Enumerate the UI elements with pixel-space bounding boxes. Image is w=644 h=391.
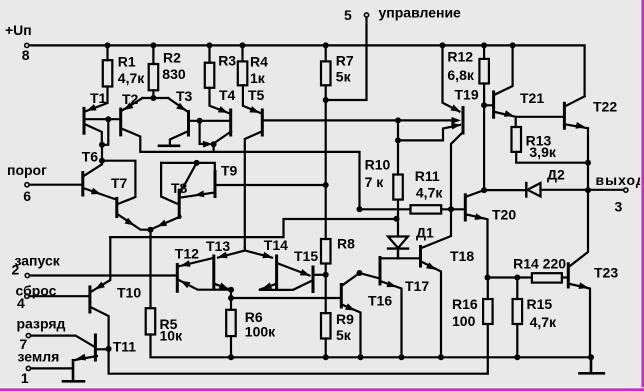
wire: R14 node wire to T23 base: [488, 276, 568, 278]
svg-text:100к: 100к: [245, 324, 276, 340]
svg-text:R4: R4: [250, 54, 268, 70]
transistor T1 base bar: [83, 108, 86, 133]
wire: T20 emitter down to R14/R16 node: [467, 215, 488, 278]
wire: T5 base long wire to T19 second emitter: [264, 119, 453, 121]
wire: T3 collector to ground stem: [170, 132, 188, 145]
ground stem and bar under T23: [580, 357, 604, 373]
diode D1: [388, 237, 408, 249]
svg-text:T11: T11: [113, 339, 137, 355]
svg-text:+Uп: +Uп: [5, 22, 32, 38]
T6 emitter arrow: [91, 188, 101, 195]
junction dot R8/R9 node: [323, 272, 329, 278]
wire: T1 collector diagonal: [85, 124, 102, 145]
T9 emitter arrow: [195, 191, 205, 198]
junction dot T1 base node: [105, 116, 111, 122]
wire: T13/T14 common feed from T5 collector: [218, 247, 272, 257]
resistor R13: [512, 127, 522, 152]
transistor T15 base bar: [312, 267, 315, 292]
svg-text:R8: R8: [337, 236, 355, 252]
wire: trigger pin2 wire to T12 base: [30, 274, 176, 276]
resistor R12: [479, 59, 489, 84]
T18 emitter arrow: [426, 262, 436, 270]
svg-text:T23: T23: [594, 265, 618, 281]
T8 emitter arrow: [157, 220, 167, 227]
wire: T8 base loop from collector wire: [161, 163, 177, 204]
T14 bottom arrow: [262, 282, 272, 288]
wire: T21 collector to rail: [495, 45, 513, 94]
svg-text:T9: T9: [221, 163, 238, 179]
junction dots above R6: [228, 287, 234, 293]
wire: threshold input to T6 base: [29, 184, 82, 186]
svg-text:R9: R9: [336, 311, 354, 327]
wire: node T3T4-base tap down to T4 collector node: [200, 121, 205, 144]
wire: T7/T8 tail current wire to T10 and over up to D1 node: [110, 219, 396, 237]
svg-text:T19: T19: [455, 87, 479, 103]
svg-text:R15: R15: [527, 296, 553, 312]
svg-text:10к: 10к: [160, 328, 184, 344]
svg-text:T3: T3: [176, 88, 193, 104]
svg-text:T10: T10: [117, 285, 141, 301]
svg-text:T21: T21: [520, 90, 544, 106]
wire: R11 left lead from node: [360, 208, 411, 210]
resistor R4: [238, 61, 248, 85]
svg-text:T6: T6: [82, 149, 99, 165]
transistor T22 base bar: [563, 103, 566, 128]
wire: tail node down through rail to R5 top: [149, 230, 151, 309]
wire: T1 base to T2 base with tap down to T1 collector node: [84, 119, 120, 145]
T19 first emitter arrow: [451, 105, 461, 112]
svg-text:1: 1: [21, 370, 29, 386]
T19 third emitter arrow: [451, 123, 461, 130]
transistor T12 base bar: [176, 265, 179, 292]
svg-text:6: 6: [23, 188, 31, 204]
svg-text:R2: R2: [163, 50, 181, 66]
resistor R10: [393, 175, 403, 200]
wire: R8 bottom to R8/R9 node and on to R9 top: [325, 264, 327, 314]
wire: T18 emitter to rail: [422, 262, 441, 357]
resistor R1: [103, 60, 113, 86]
T23 emitter arrow: [579, 282, 589, 289]
ground bar under T3: [159, 145, 179, 148]
svg-text:1к: 1к: [250, 70, 266, 86]
svg-text:R1: R1: [118, 54, 136, 70]
svg-text:T22: T22: [593, 99, 617, 115]
transistor T4 base bar: [229, 110, 232, 135]
wire: T17 emitter to rail: [382, 282, 402, 358]
wire: D2 anode to output terminal pin3: [541, 189, 624, 191]
wire: R7 top lead from rail: [325, 45, 327, 61]
svg-text:T20: T20: [492, 207, 516, 223]
svg-text:4,7к: 4,7к: [416, 185, 443, 201]
wire: T12 upper link to T13 bar: [179, 258, 212, 266]
wire: reset pin4 wire to T10 base: [29, 295, 88, 297]
terminal pin8 +Up: [25, 43, 29, 47]
T11 emitter arrow: [76, 354, 86, 361]
svg-text:4,7к: 4,7к: [118, 70, 145, 86]
wire: T8 collector diagonal up to node: [180, 163, 197, 194]
terminal pin6 threshold: [25, 183, 29, 187]
resistor R11 horizontal: [411, 205, 442, 213]
transistor T11 base bar: [94, 335, 97, 360]
junction dot tail node: [148, 227, 154, 233]
svg-text:T12: T12: [175, 246, 199, 262]
junction dot D1 top node: [394, 216, 400, 222]
svg-text:R16: R16: [452, 296, 478, 312]
junction dot R13 bottom node: [585, 160, 591, 166]
transistor T5 base bar: [261, 110, 264, 135]
wire: output node down to T23 collector: [570, 190, 588, 266]
transistor T18 base bar: [419, 247, 422, 267]
T2 emitter arrow: [124, 102, 134, 110]
wire: R12 bottom down to output wire node with T21 base tap: [484, 84, 492, 191]
wire: T21 emitter to R13 and T22 base: [495, 112, 563, 127]
wire: T19 collector lead down to R11 node: [451, 132, 463, 209]
svg-text:R10: R10: [365, 157, 391, 173]
wire: T22 emitter down through R13 node to output node: [566, 125, 588, 191]
wire: R9 bottom to rail: [325, 339, 327, 358]
wire: gnd pin1 wire to ground stem: [30, 367, 73, 369]
svg-text:T14: T14: [264, 237, 288, 253]
wire: R3 bottom to T4 emitter diagonal: [210, 88, 229, 113]
junction dot T3/T4 base node: [197, 118, 203, 124]
svg-text:7 к: 7 к: [365, 174, 385, 190]
junction dots R14 node row: [485, 275, 491, 281]
ground stem and bar under T11: [63, 360, 84, 381]
wire: T19 first emitter from rail: [443, 45, 460, 111]
junction dot output node: [585, 187, 591, 193]
junction dots T1 collector chain: [99, 142, 105, 148]
svg-text:4,7к: 4,7к: [530, 314, 557, 330]
T4 collector arrow: [203, 141, 213, 148]
wire: T10 emitter down to T11 collector node: [91, 308, 108, 349]
junction dot T4 collector node: [211, 141, 217, 147]
resistor R8: [321, 239, 331, 264]
junction dot T9 base node: [323, 182, 329, 188]
svg-text:земля: земля: [18, 349, 60, 365]
terminal pin4 reset: [25, 294, 29, 298]
T12 upper arrow: [181, 260, 191, 267]
transistor T6 base bar: [81, 173, 84, 196]
svg-text:Д2: Д2: [547, 167, 565, 183]
junction dot R12 output node: [481, 187, 487, 193]
svg-text:T17: T17: [405, 278, 429, 294]
svg-text:T4: T4: [219, 87, 236, 103]
wire: T15 base to R8/R9 node: [315, 274, 326, 276]
wire: T2 emitter diagonal: [122, 98, 143, 111]
svg-text:T16: T16: [368, 293, 392, 309]
svg-text:запуск: запуск: [15, 253, 61, 269]
wire: T18 collector up to R11 node: [422, 209, 452, 248]
T14 top arrow: [262, 252, 272, 259]
transistor T10 base bar: [88, 287, 91, 312]
terminal pin2 trigger: [25, 273, 29, 277]
terminal pin1 ground: [26, 366, 30, 370]
T12 emitter arrow: [181, 281, 191, 289]
transistor T13 base bar: [212, 256, 215, 288]
wire: T9 emitter diagonal to T8 bar: [181, 193, 215, 198]
wire: R6 node to T16 base: [231, 297, 340, 299]
junction dot T11 collector node: [106, 346, 112, 352]
T4 emitter arrow: [218, 106, 228, 113]
wire: control pin5 lead down and over to R7 bottom node: [326, 17, 367, 100]
wire: T23 emitter to rail: [570, 284, 590, 357]
T16 emitter arrow: [345, 303, 355, 310]
wire: R15 top lead from node: [516, 278, 518, 300]
wire: T17 collector bus to T18 base with D1 tap: [380, 257, 419, 259]
wire: R2 top lead from rail: [152, 45, 154, 64]
junction dot T19 third emitter branch: [395, 137, 401, 143]
junction dot R2 base tie: [150, 95, 156, 101]
svg-text:разряд: разряд: [17, 316, 66, 332]
svg-text:R14 220: R14 220: [513, 256, 566, 272]
wire: R15 bottom to rail: [516, 324, 518, 357]
wire: T22 collector diagonal to rail drop: [566, 96, 585, 106]
svg-text:T18: T18: [450, 248, 474, 264]
wire: T16 collector diagonal to node: [343, 273, 360, 285]
resistor R5: [146, 308, 156, 334]
wire: T16 emitter to rail: [343, 305, 361, 357]
svg-text:Д1: Д1: [416, 225, 434, 241]
wire: +Up top supply rail pin8 to T22 collector drop: [29, 45, 585, 96]
wire: T3 emitter diagonal: [168, 98, 187, 111]
junction dot T16 collector node: [357, 270, 363, 276]
transistor T9 base bar: [214, 171, 217, 196]
transistor T19 base bar: [462, 108, 465, 133]
svg-text:R7: R7: [336, 53, 354, 69]
wire: T4 collector diagonal: [214, 132, 231, 144]
wire: T20 collector to output wire node: [467, 190, 485, 196]
wire: R4 top lead from rail: [241, 45, 243, 61]
wire: T11 emitter to ground stem: [73, 356, 97, 360]
wire: R16 bottom crossing rail down to gnd return line to T11 node: [109, 324, 488, 374]
wire: T8 emitter to tail node: [148, 217, 181, 230]
svg-text:T5: T5: [248, 87, 265, 103]
transistor T8 base bar: [178, 190, 181, 217]
resistor R6: [226, 310, 236, 336]
wire: T13 emitter to node above R6: [216, 284, 230, 289]
resistor R14 horizontal: [532, 273, 562, 282]
svg-text:T15: T15: [294, 248, 318, 264]
resistor R9: [321, 313, 331, 338]
transistor T14 base bar: [275, 256, 278, 288]
wire: R5 bottom corner into emitter ground rail: [151, 335, 592, 358]
svg-text:T2: T2: [122, 91, 139, 107]
resistor R3: [205, 63, 215, 88]
svg-text:830: 830: [162, 66, 186, 82]
wire: node to T17 base diagonal: [360, 273, 379, 278]
wire: T19 third emitter branch: [398, 125, 460, 140]
svg-text:управление: управление: [379, 5, 462, 21]
svg-text:3: 3: [615, 199, 623, 215]
T1 emitter arrow: [87, 104, 97, 111]
transistor T3 base bar: [187, 112, 190, 136]
wire: T11 collector stub to node: [97, 348, 109, 350]
svg-text:100: 100: [452, 313, 476, 329]
resistor R16: [483, 299, 493, 324]
wire: T6 emitter diagonal to T7 base: [85, 189, 115, 200]
wire: T9 base to divider node on R7/R8 line: [217, 184, 326, 186]
wire: R1 top lead from rail: [106, 45, 108, 60]
wire: T3 base to T4 base: [190, 120, 229, 122]
wire: discharge pin7 wire to T11 base: [30, 336, 94, 347]
svg-text:8: 8: [22, 47, 30, 63]
svg-text:T8: T8: [171, 180, 188, 196]
junction dots bottom rail: [228, 354, 234, 360]
junction dot R11 right node: [448, 206, 454, 212]
diode D2: [528, 183, 541, 197]
wire: T10 collector drop and diagonal: [92, 237, 111, 291]
junction dots top rail: [105, 42, 111, 48]
svg-text:6,8к: 6,8к: [447, 67, 474, 83]
T17 emitter arrow: [386, 281, 396, 287]
transistor T23 base bar: [567, 264, 570, 287]
svg-text:5: 5: [344, 7, 352, 23]
terminal pin5 control: [364, 13, 368, 17]
wire: T14 emitter to T15 emitter bus: [259, 281, 311, 290]
wire: T8/T9 collector wire: [161, 163, 215, 172]
transistor T17 base bar: [379, 258, 382, 285]
wire: R3 top lead from rail: [208, 45, 210, 62]
svg-text:R3: R3: [218, 53, 236, 69]
wire: R4 bottom to T5 emitter diagonal: [243, 85, 260, 113]
T5 emitter arrow: [249, 106, 259, 113]
T10 collector arrow: [95, 282, 105, 290]
terminal pin3 output: [624, 188, 628, 192]
wire: T6 collector diagonal up to node: [85, 161, 103, 176]
svg-text:R11: R11: [415, 168, 440, 184]
wire: T2 collector down to long rail and over to R11 node: [122, 129, 360, 210]
transistor T7 base bar: [115, 198, 118, 216]
wire: R1 bottom to T1 emitter diagonal: [86, 87, 108, 112]
T21 emitter arrow: [504, 110, 514, 117]
transistor T2 base bar: [119, 109, 122, 135]
wire: R10 top tap on long wire down to diode D1: [397, 120, 399, 236]
svg-text:R12: R12: [447, 48, 473, 64]
wire: R11 right lead to T20 base: [441, 208, 464, 210]
resistor R15: [513, 299, 523, 324]
wire: R2 bottom to T2/T3 emitter tie bar: [143, 90, 169, 98]
wire: T12 emitter to R6 node: [179, 280, 231, 290]
svg-text:T1: T1: [90, 90, 107, 106]
svg-text:порог: порог: [7, 162, 47, 178]
T7 emitter arrow: [125, 218, 135, 226]
wire: R12 top lead from rail: [483, 45, 485, 59]
resistor R7: [321, 61, 331, 85]
border frame: [640, 0, 641, 391]
transistor T20 base bar: [464, 195, 467, 220]
wire: output wire from R12 node to diode D2: [484, 189, 526, 191]
T13 top arrow: [218, 252, 228, 259]
T22 emitter arrow: [576, 122, 586, 129]
T20 emitter arrow: [475, 213, 485, 220]
wire: node T1-collector down to T6 collector node: [101, 145, 103, 161]
wire: T6 collector node over and down to T7 collector: [102, 161, 135, 204]
svg-text:T7: T7: [111, 175, 128, 191]
junction dot T8 collector node: [194, 160, 200, 166]
wire: T14 to T15 link arrow line: [278, 264, 310, 276]
wire: T5 collector long vertical down to T13/T14 node: [245, 132, 262, 248]
svg-text:4: 4: [17, 295, 25, 311]
T19 second emitter arrow: [452, 117, 462, 124]
resistor R2: [149, 64, 159, 90]
T15 arrow: [300, 269, 310, 276]
svg-text:T13: T13: [206, 238, 230, 254]
junction dot R10 top on long wire: [395, 117, 401, 123]
svg-text:2: 2: [12, 262, 20, 278]
wire: node above R6 to R6 top: [230, 290, 232, 310]
junction dot control/R7 node: [323, 97, 329, 103]
svg-text:выход: выход: [596, 172, 644, 188]
junction dot R11 left node: [357, 206, 363, 212]
svg-text:5к: 5к: [336, 69, 352, 85]
wire: T4 collector node down to long rail: [213, 144, 215, 151]
wire: R16 top lead from node: [487, 278, 489, 300]
T13 bottom arrow: [219, 283, 229, 290]
svg-text:3,9к: 3,9к: [529, 144, 556, 160]
wire: R13 bottom over to T22 emitter line: [516, 152, 588, 163]
wire: T7 emitter to tail node: [118, 215, 148, 230]
wire: R6 bottom to rail: [230, 336, 232, 357]
svg-text:5к: 5к: [336, 327, 352, 343]
transistor T21 base bar: [492, 92, 495, 117]
wire: R7 bottom long divider line down to R8 top: [325, 85, 327, 239]
T3 emitter arrow: [176, 103, 186, 111]
transistor T16 base bar: [340, 285, 343, 308]
junction dot T21 base node: [481, 102, 487, 108]
terminal pin7 discharge: [26, 334, 30, 338]
